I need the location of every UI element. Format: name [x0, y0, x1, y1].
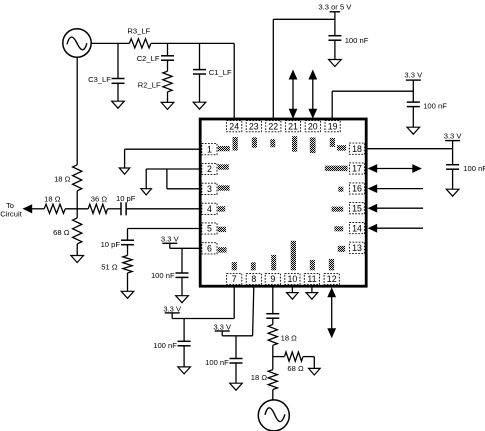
input arrow pin 15 [368, 204, 424, 213]
wire pin 4 to series cap [126, 208, 200, 210]
pin 9 [265, 273, 280, 284]
resistor 18 ohm (pin 9 lower) [251, 370, 278, 390]
supply 3.3 V (pin 8) [213, 322, 232, 335]
svg-text:100 nF: 100 nF [345, 36, 369, 45]
svg-text:3.3 V: 3.3 V [444, 131, 463, 140]
svg-text:C2_LF: C2_LF [137, 54, 160, 63]
pin 2 [202, 163, 217, 174]
wire and arrow To Circuit [22, 204, 44, 213]
svg-text:3.3 V: 3.3 V [161, 235, 180, 244]
pad pin 13 [338, 246, 345, 252]
wire supply to pin 22 [273, 19, 335, 119]
ground (pin 22 supply cap) [329, 60, 342, 67]
svg-text:10 pF: 10 pF [116, 194, 136, 203]
pad pin 21 [292, 136, 297, 152]
wire R to junction [272, 345, 274, 369]
pad pin 20 [310, 137, 316, 153]
label To Circuit [0, 201, 22, 219]
ground R2_LF [161, 102, 174, 109]
pin 7 [227, 273, 242, 284]
svg-text:16: 16 [352, 184, 362, 194]
bidirectional arrow pin 20 [308, 70, 317, 119]
capacitor C1_LF [193, 43, 232, 102]
ground (68 ohm vertical) [71, 256, 84, 263]
pad pin 10 [291, 241, 296, 270]
pad pin 3 [218, 185, 230, 190]
svg-text:100 nF: 100 nF [423, 102, 447, 111]
pin 6 [202, 243, 217, 254]
wire V_LF1 to R18 vertical [76, 57, 78, 165]
svg-text:51 Ω: 51 Ω [101, 263, 118, 272]
svg-text:36 Ω: 36 Ω [91, 195, 108, 204]
resistor 18 ohm (vertical) [54, 165, 82, 191]
pad pin 15 [332, 207, 344, 212]
svg-text:21: 21 [288, 121, 298, 131]
wire pin 9 down [272, 286, 274, 314]
wire pin 1 to ground [125, 149, 201, 168]
pin 18 [349, 143, 364, 154]
svg-text:22: 22 [268, 121, 278, 131]
pad pin 16 [338, 187, 343, 192]
ground C3_LF [112, 101, 125, 108]
svg-text:R2_LF: R2_LF [138, 81, 161, 90]
pad pin 9 [271, 255, 276, 270]
svg-text:8: 8 [251, 274, 256, 284]
pad pin 6 [218, 247, 227, 252]
svg-text:23: 23 [249, 121, 259, 131]
svg-text:20: 20 [308, 121, 318, 131]
capacitor 10 pF (pin 4 series) [116, 194, 136, 215]
pad pin 2 [218, 164, 229, 169]
ground (51 ohm) [121, 291, 134, 298]
supply 3.3 V (pin 18) [444, 131, 463, 148]
svg-text:12: 12 [327, 274, 337, 284]
capacitor C2_LF [137, 43, 174, 63]
svg-text:18 Ω: 18 Ω [44, 195, 61, 204]
wire V_LF1 to R3_LF [91, 42, 129, 44]
resistor 36 ohm [88, 195, 107, 214]
wire 68 ohm to ground [303, 357, 314, 369]
wire pin 7 down [172, 286, 234, 318]
svg-text:3.3 V: 3.3 V [163, 304, 182, 313]
wire pin 5 [128, 229, 201, 241]
bidirectional arrow pin 17 [368, 164, 422, 173]
svg-text:100 nF: 100 nF [463, 164, 485, 173]
capacitor 10 pF (pin 5) [101, 240, 134, 256]
svg-text:To: To [6, 201, 14, 210]
pin 21 [285, 121, 300, 132]
pad pin 5 [218, 227, 226, 232]
svg-text:100 nF: 100 nF [153, 341, 177, 350]
pin 19 [325, 121, 340, 132]
svg-text:3.3 or 5 V: 3.3 or 5 V [318, 2, 352, 11]
pin 12 [324, 273, 339, 284]
svg-text:18 Ω: 18 Ω [281, 333, 298, 342]
svg-text:1: 1 [207, 144, 212, 154]
wire 68 ohm to ground [76, 244, 78, 256]
ground (68 ohm) [309, 368, 321, 375]
input arrow pin 14 [368, 224, 424, 233]
pin 20 [305, 121, 320, 132]
svg-text:19: 19 [328, 121, 338, 131]
resistor 18 ohm (to circuit) [44, 195, 65, 214]
supply 3.3 V (pin 7) [163, 304, 182, 318]
svg-text:18: 18 [352, 144, 362, 154]
svg-text:4: 4 [207, 204, 212, 214]
ground pin 1 [119, 168, 130, 174]
capacitor 100 nF (pin 6) [151, 248, 189, 295]
pad pin 12 [329, 259, 334, 271]
pin 13 [349, 242, 364, 253]
svg-text:24: 24 [229, 121, 239, 131]
wire pin 6 [170, 247, 200, 249]
svg-text:15: 15 [352, 203, 362, 213]
pin 24 [227, 121, 242, 132]
capacitor C3_LF [88, 43, 124, 101]
wire pin 8 horizontal [222, 335, 252, 337]
IC U1 QFN-24 body [200, 119, 366, 286]
svg-text:5: 5 [207, 224, 212, 234]
bidirectional arrow pin 12 [327, 287, 336, 338]
pad pin 18 [337, 145, 346, 151]
resistor 68 ohm (pin 9 branch) [285, 352, 304, 373]
pin 5 [202, 223, 217, 234]
svg-text:R3_LF: R3_LF [127, 27, 150, 36]
pad pin 1 [218, 146, 230, 151]
pin 4 [202, 203, 217, 214]
wire pin 8 down [253, 286, 254, 336]
pin 10 [285, 273, 300, 284]
wire 51 ohm to ground [127, 273, 129, 291]
svg-text:Circuit: Circuit [0, 210, 22, 219]
svg-text:C1_LF: C1_LF [209, 68, 232, 77]
svg-text:68 Ω: 68 Ω [287, 364, 304, 373]
pad pin 11 [310, 260, 315, 270]
wire cap to R36 [108, 208, 121, 210]
supply 3.3 V (pin 6) [161, 235, 180, 249]
svg-text:2: 2 [207, 164, 212, 174]
pin 23 [246, 121, 261, 132]
pin 3 [202, 183, 217, 194]
capacitor 100 nF (pin 19) [407, 102, 447, 128]
svg-text:3.3 V: 3.3 V [404, 71, 423, 80]
ground pin 10 [287, 286, 299, 299]
wire R36 to junction [65, 208, 88, 210]
ground (pin 8 cap) [230, 383, 243, 390]
wire R3_LF to pin 24 node [151, 42, 234, 44]
pin 16 [349, 183, 364, 194]
capacitor 100 nF (pin 22 supply) [328, 36, 368, 60]
capacitor 100 nF (pin 18) [446, 149, 485, 190]
resistor 68 ohm (vertical) [53, 218, 82, 244]
bidirectional arrow pin 21 [289, 70, 298, 119]
wire to source V2 [272, 390, 274, 400]
pad pin 17 [325, 166, 348, 172]
pin 11 [304, 273, 319, 284]
svg-text:3.3 V: 3.3 V [213, 322, 232, 331]
pin 1 [202, 144, 217, 155]
ground pin 11 [306, 286, 318, 299]
pin 22 [266, 121, 281, 132]
svg-text:18 Ω: 18 Ω [251, 373, 268, 382]
svg-text:10: 10 [288, 274, 298, 284]
resistor R3_LF [127, 27, 150, 48]
wire pin 3 to pin 2 net [167, 169, 200, 189]
svg-text:6: 6 [207, 244, 212, 254]
input arrow pin 16 [368, 184, 424, 193]
ground (pin 19 cap) [407, 127, 420, 134]
svg-text:7: 7 [232, 274, 237, 284]
wire cap to R 18ohm [272, 318, 274, 324]
capacitor 100 nF (pin 8) [205, 336, 242, 383]
pad pin 23 [252, 137, 257, 147]
ground (pin 6 cap) [176, 296, 189, 303]
ground pin 2 [141, 189, 152, 195]
svg-text:100 nF: 100 nF [151, 271, 175, 280]
svg-text:11: 11 [307, 274, 316, 284]
capacitor 100 nF (pin 7) [153, 319, 190, 367]
resistor 18 ohm (pin 9 upper) [268, 325, 297, 346]
svg-text:17: 17 [352, 164, 362, 174]
pad pin 19 [330, 138, 335, 147]
supply 3.3 or 5 V [318, 2, 352, 35]
wire junction to 68 ohm [273, 356, 285, 358]
pad pin 7 [232, 262, 237, 270]
ground C1_LF [193, 102, 206, 109]
supply 3.3 V (pin 19) [404, 71, 423, 103]
svg-text:13: 13 [352, 243, 362, 253]
wire pin 19 to 3.3 V node [332, 91, 413, 119]
pin 17 [349, 163, 364, 174]
wire pin 18 to 3.3 V node [366, 148, 452, 150]
wire R18 to junction pin4 [76, 191, 78, 218]
svg-text:14: 14 [352, 223, 362, 233]
pad pin 4 [218, 206, 225, 211]
ground (pin 7 cap) [178, 367, 191, 374]
svg-text:9: 9 [270, 274, 275, 284]
pad pin 24 [233, 137, 238, 151]
voltage source V_LF1 (sine) [63, 29, 91, 57]
svg-text:10 pF: 10 pF [101, 240, 121, 249]
svg-text:3: 3 [207, 184, 212, 194]
pin 8 [246, 273, 261, 284]
resistor 51 ohm [101, 255, 132, 273]
svg-text:100 nF: 100 nF [205, 358, 229, 367]
svg-text:18 Ω: 18 Ω [54, 175, 71, 184]
pin 15 [349, 203, 364, 214]
resistor R2_LF [138, 60, 172, 102]
pin 14 [349, 223, 364, 234]
voltage source V2 (sine) [258, 400, 289, 431]
pad pin 14 [334, 226, 343, 231]
ground (pin 18 cap) [446, 189, 459, 196]
wire node to pin 24 [233, 43, 235, 119]
pad pin 8 [251, 262, 256, 270]
pad pin 22 [270, 139, 275, 147]
wire pin 2 to ground [146, 169, 200, 189]
svg-text:68 Ω: 68 Ω [53, 228, 70, 237]
capacitor (pin 9 series) [266, 313, 279, 315]
svg-text:C3_LF: C3_LF [88, 75, 111, 84]
